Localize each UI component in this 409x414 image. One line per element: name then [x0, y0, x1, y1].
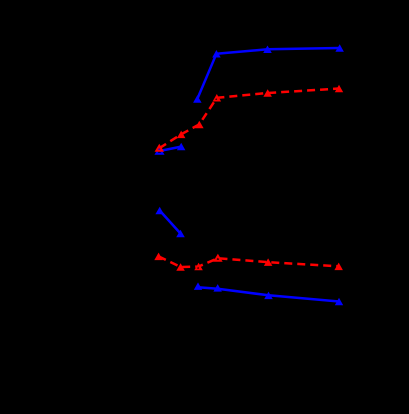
- bottom blue solid curve (line): [198, 287, 339, 301]
- bottom red curve marker 3: [194, 263, 203, 270]
- top blue curve marker 4: [335, 44, 344, 52]
- top red curve marker 5: [263, 89, 272, 97]
- bottom blue curve marker 1: [194, 282, 202, 290]
- middle blue segment marker 1: [156, 148, 163, 154]
- middle blue short segment (line): [160, 147, 182, 151]
- bottom red dashed curve (line): [159, 256, 339, 267]
- top red curve marker 1: [156, 146, 162, 151]
- bottom red curve marker 2: [176, 263, 185, 271]
- top red dashed curve (line): [159, 89, 339, 149]
- bottom red curve marker 5: [264, 258, 273, 266]
- top red curve marker 2: [177, 131, 186, 139]
- bottom red curve marker 4: [215, 256, 221, 261]
- top blue curve marker 1: [193, 95, 202, 103]
- bottom red curve marker 1: [154, 253, 163, 261]
- bottom blue curve marker 3: [264, 292, 273, 300]
- lower-left blue segment (line): [160, 211, 181, 234]
- lower-left blue segment marker 2: [176, 230, 185, 237]
- lower-left blue segment marker 1: [155, 207, 164, 214]
- top red curve marker 6: [335, 85, 343, 92]
- bottom blue curve marker 4: [335, 298, 343, 305]
- bottom blue curve marker 2: [213, 284, 222, 292]
- top blue curve marker 3: [263, 46, 272, 54]
- top blue solid curve (line): [197, 48, 339, 99]
- top red curve marker 3: [195, 121, 204, 129]
- bottom red curve marker 6: [334, 263, 343, 271]
- top blue curve marker 2: [212, 50, 221, 58]
- middle blue segment marker 2: [177, 143, 186, 151]
- top red curve marker 4: [213, 94, 222, 102]
